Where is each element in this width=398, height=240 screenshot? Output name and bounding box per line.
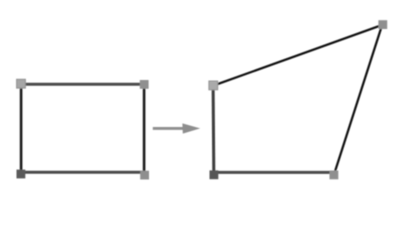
- left rectangle right edge: [143, 84, 146, 173]
- right quadrilateral left edge: [212, 86, 216, 173]
- transformation arrow: [153, 123, 200, 133]
- right quadrilateral left vertex handle: [209, 81, 218, 90]
- left rectangle top-left vertex handle: [17, 79, 26, 88]
- right quadrilateral top-right vertex handle: [378, 20, 387, 29]
- left rectangle bottom-right vertex handle: [140, 171, 149, 180]
- left rectangle top-right vertex handle: [140, 80, 149, 89]
- right quadrilateral bottom edge: [214, 171, 334, 174]
- left rectangle left edge: [20, 84, 23, 173]
- right quadrilateral top edge: [215, 25, 382, 85]
- right quadrilateral bottom-right vertex handle: [330, 171, 339, 180]
- left rectangle top edge: [21, 83, 144, 86]
- right quadrilateral right edge: [335, 26, 382, 173]
- left rectangle bottom edge: [21, 171, 145, 174]
- right quadrilateral bottom-left vertex handle: [210, 170, 219, 179]
- left rectangle bottom-left vertex handle: [17, 170, 26, 179]
